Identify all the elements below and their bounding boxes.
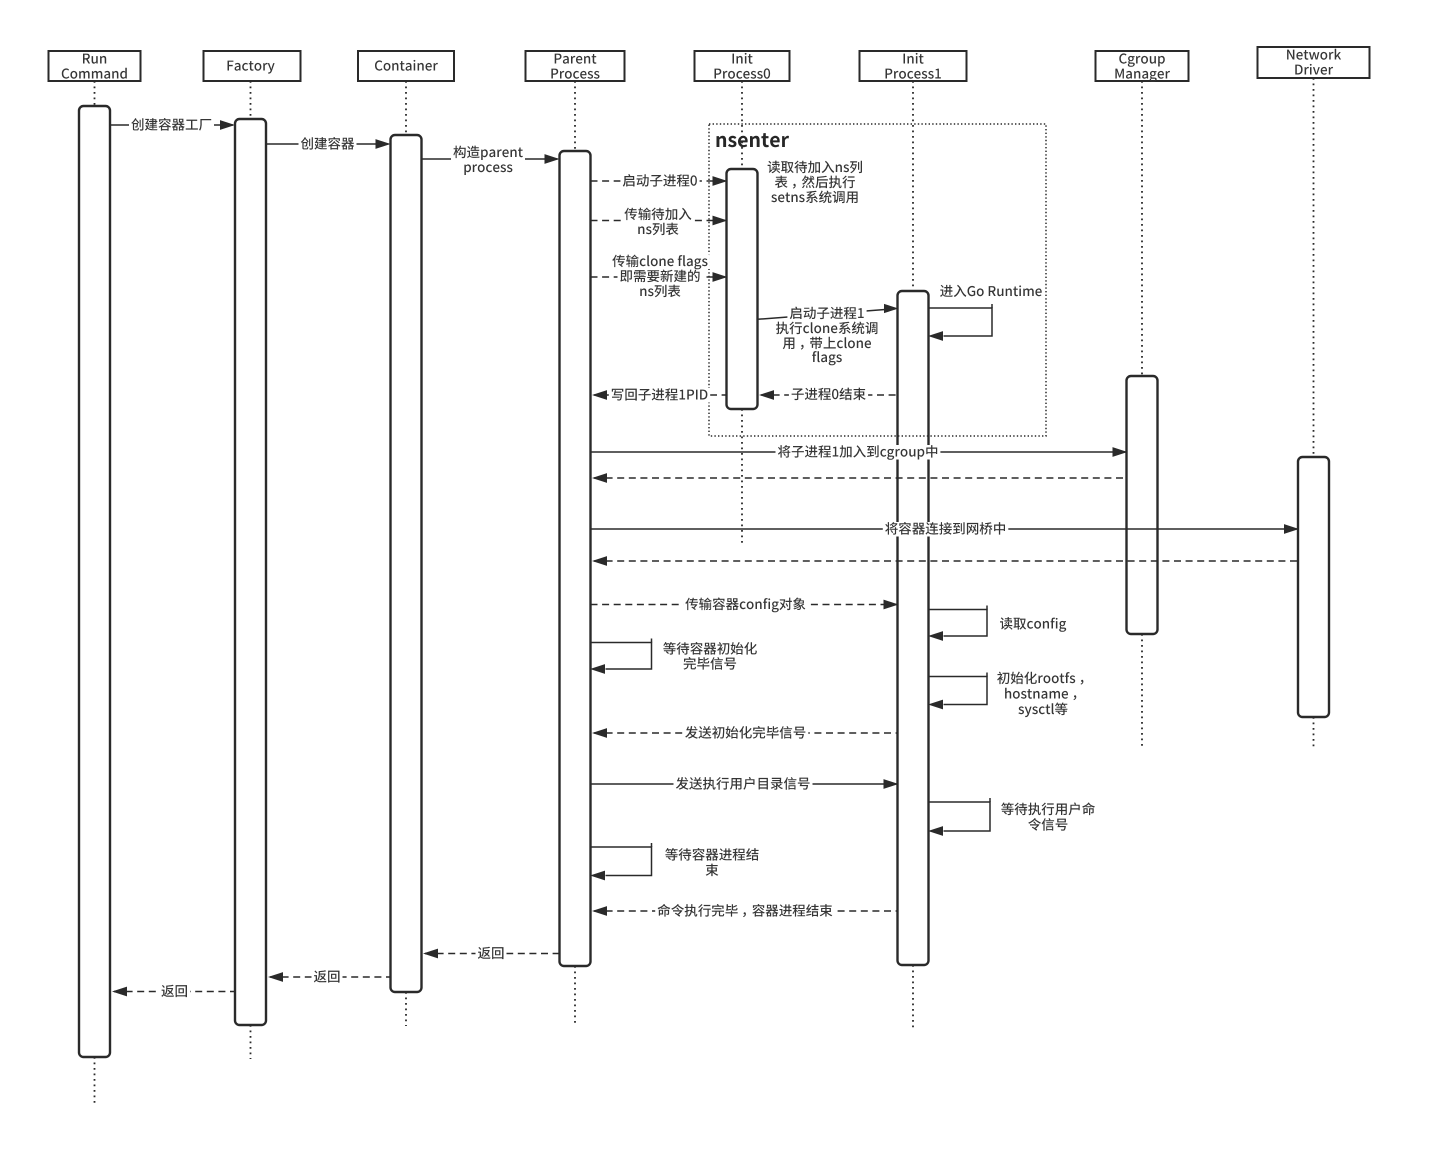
return 返回 (Container to Factory, dashed)	[268, 970, 391, 985]
header box Cgroup Manager	[1096, 51, 1189, 82]
activation bar Parent Process	[560, 151, 591, 966]
self message 等待容器进程结束 (Parent Process)	[590, 843, 759, 880]
message 发送初始化完毕信号 (Init Process1 to Parent, dashed)	[592, 726, 898, 741]
message 创建容器 (Factory to Container)	[267, 137, 391, 152]
activation bar Container	[391, 135, 422, 992]
message 写回子进程1PID (Init Process0 to Parent, dashed)	[592, 388, 727, 403]
message 构造parent process (Container to Parent Process)	[422, 146, 560, 176]
self message 读取config (Init Process1)	[928, 606, 1066, 641]
return 返回 (Factory to Run Command, dashed)	[112, 985, 235, 1000]
dashed return (Cgroup Manager to Parent)	[592, 473, 1127, 483]
return 返回 (Parent to Container, dashed)	[423, 947, 560, 962]
nsenter frame (dotted)	[709, 124, 1046, 436]
activation bar Init Process0	[727, 169, 758, 409]
activation bar Cgroup Manager	[1127, 376, 1158, 634]
self message 等待执行用户命令信号 (Init Process1)	[928, 798, 1095, 836]
message 启动子进程0 (Parent to Init Process0, dashed)	[591, 174, 728, 189]
dashed return (Network Driver to Parent)	[592, 556, 1298, 566]
header box Container	[358, 51, 454, 81]
lifeline Init Process0 (dotted)	[741, 81, 743, 545]
message 启动子进程1 执行clone系统调用，带上clone flags (Init Process0 to Init Process1)	[758, 304, 899, 365]
message 传输clone flags 即需要新建的ns列表 (Parent to Init Process0, dashed)	[591, 255, 728, 300]
message 传输容器config对象 (Parent to Init Process1, dashed)	[591, 598, 899, 613]
lifeline Container (dotted)	[405, 81, 407, 1026]
message 子进程0结束 (Init Process1 to Init Process0, dashed)	[759, 388, 898, 403]
activation bar Network Driver	[1298, 457, 1329, 717]
activation bar Run Command	[79, 106, 110, 1057]
header box Init Process0	[695, 51, 790, 81]
message 将容器连接到网桥中 (Parent to Network Driver)	[591, 522, 1300, 537]
self message 进入Go Runtime (Init Process1)	[928, 304, 992, 341]
activation bar Init Process1	[898, 291, 929, 965]
label 进入Go Runtime	[940, 285, 1042, 297]
header box Network Driver	[1258, 47, 1370, 78]
lifeline Cgroup Manager (dotted)	[1141, 81, 1143, 747]
message 创建容器工厂 (Run Command to Factory)	[111, 118, 236, 133]
message 发送执行用户目录信号 (Parent to Init Process1)	[591, 777, 899, 792]
header box Run Command	[49, 51, 141, 81]
self message 等待容器初始化完毕信号 (Parent Process)	[590, 639, 757, 674]
header box Parent Process	[526, 51, 625, 81]
note 读取待加入ns列表，然后执行setns系统调用	[768, 161, 862, 204]
lifeline Factory (dotted)	[250, 81, 252, 1059]
message 将子进程1加入到cgroup中 (Parent to Cgroup Manager)	[591, 445, 1128, 460]
lifeline Run Command (dotted)	[94, 81, 96, 1105]
self message 初始化rootfs hostname sysctl等 (Init Process1)	[928, 672, 1083, 718]
message 命令执行完毕，容器进程结束 (Init Process1 to Parent, dashed)	[592, 904, 898, 919]
header box Init Process1	[860, 51, 967, 81]
activation bar Factory	[235, 119, 266, 1025]
header box Factory	[204, 51, 301, 81]
message 传输待加入ns列表 (Parent to Init Process0, dashed)	[591, 208, 728, 238]
lifeline Init Process1 (dotted)	[912, 81, 914, 1028]
nsenter label	[717, 133, 790, 147]
lifeline Parent Process (dotted)	[574, 81, 576, 1024]
lifeline Network Driver (dotted)	[1313, 78, 1315, 747]
